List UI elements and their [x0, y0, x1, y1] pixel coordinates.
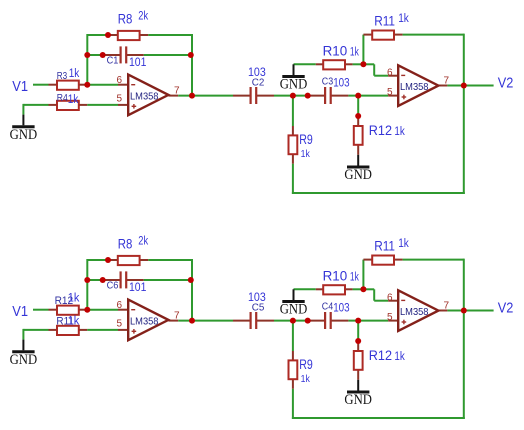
- svg-text:R11: R11: [374, 238, 395, 253]
- svg-text:6: 6: [117, 75, 123, 86]
- svg-text:R11: R11: [374, 13, 395, 28]
- svg-text:R8: R8: [118, 11, 133, 26]
- svg-text:C2: C2: [252, 77, 265, 89]
- svg-text:1k: 1k: [394, 126, 405, 138]
- svg-text:2k: 2k: [138, 236, 148, 248]
- svg-text:1k: 1k: [68, 316, 80, 328]
- svg-text:C1: C1: [107, 55, 119, 67]
- svg-text:7: 7: [444, 301, 450, 312]
- svg-text:101: 101: [129, 55, 147, 69]
- svg-text:1k: 1k: [68, 292, 80, 304]
- svg-text:6: 6: [117, 300, 123, 311]
- svg-text:2k: 2k: [138, 11, 148, 23]
- svg-text:6: 6: [387, 293, 393, 304]
- svg-text:1k: 1k: [394, 351, 405, 363]
- svg-text:V1: V1: [12, 303, 28, 320]
- svg-text:7: 7: [174, 311, 180, 322]
- svg-text:1k: 1k: [398, 238, 409, 250]
- svg-text:1k: 1k: [398, 13, 409, 25]
- svg-text:1k: 1k: [68, 94, 79, 106]
- svg-text:GND: GND: [10, 352, 38, 368]
- svg-text:1k: 1k: [301, 148, 311, 160]
- svg-text:R12: R12: [369, 123, 392, 138]
- svg-text:C4: C4: [322, 301, 334, 313]
- svg-text:R10: R10: [323, 269, 348, 284]
- svg-text:5: 5: [117, 319, 123, 330]
- svg-text:V2: V2: [498, 74, 514, 91]
- svg-text:R12: R12: [369, 348, 392, 363]
- svg-text:GND: GND: [10, 127, 38, 143]
- svg-text:R8: R8: [118, 236, 133, 251]
- svg-text:1k: 1k: [69, 68, 80, 80]
- svg-text:5: 5: [117, 94, 123, 105]
- svg-text:V2: V2: [498, 299, 514, 316]
- svg-text:LM358: LM358: [130, 92, 159, 103]
- svg-text:R10: R10: [323, 44, 348, 59]
- svg-text:GND: GND: [344, 392, 372, 408]
- svg-text:C5: C5: [252, 302, 265, 314]
- svg-text:GND: GND: [280, 77, 308, 93]
- svg-text:LM358: LM358: [130, 317, 159, 328]
- svg-text:7: 7: [444, 76, 450, 87]
- svg-text:GND: GND: [280, 302, 308, 318]
- svg-text:LM358: LM358: [400, 82, 429, 93]
- svg-text:103: 103: [333, 302, 349, 314]
- svg-text:1k: 1k: [301, 373, 311, 385]
- svg-text:LM358: LM358: [400, 307, 429, 318]
- svg-text:R3: R3: [57, 70, 68, 82]
- svg-text:R4: R4: [57, 92, 68, 104]
- svg-text:6: 6: [387, 68, 393, 79]
- svg-text:C6: C6: [107, 280, 119, 292]
- svg-text:7: 7: [174, 86, 180, 97]
- svg-text:101: 101: [129, 280, 147, 294]
- svg-text:1k: 1k: [350, 47, 359, 59]
- svg-text:R9: R9: [299, 132, 313, 147]
- svg-text:1k: 1k: [350, 272, 359, 284]
- svg-text:5: 5: [387, 87, 393, 98]
- svg-text:V1: V1: [12, 78, 28, 95]
- svg-text:C3: C3: [322, 76, 334, 88]
- svg-text:103: 103: [333, 77, 349, 89]
- svg-text:R9: R9: [299, 357, 313, 372]
- svg-text:5: 5: [387, 312, 393, 323]
- svg-text:GND: GND: [344, 167, 372, 183]
